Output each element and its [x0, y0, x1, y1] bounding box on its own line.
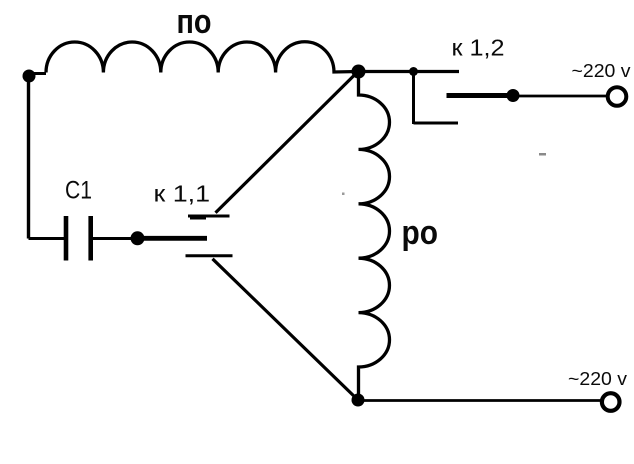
svg-text:к 1,2: к 1,2	[452, 35, 505, 61]
svg-text:по: по	[177, 3, 212, 41]
svg-text:к 1,1: к 1,1	[154, 180, 211, 206]
svg-text:ро: ро	[402, 214, 439, 252]
svg-text:C1: C1	[65, 177, 92, 205]
svg-text:~220 v: ~220 v	[568, 369, 627, 389]
svg-text:~220 v: ~220 v	[572, 61, 631, 81]
